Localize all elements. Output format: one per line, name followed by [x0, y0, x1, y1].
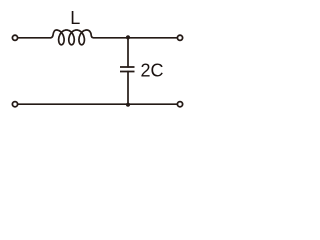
svg-text:L: L: [70, 8, 80, 28]
wire bottom: [18, 103, 176, 105]
terminal top-left: [12, 35, 17, 40]
wire capacitor lower lead: [127, 72, 129, 105]
terminal bottom-left: [12, 102, 17, 107]
inductor L coil: [51, 30, 94, 45]
node junction top: [126, 35, 130, 39]
capacitor 2C plates: [120, 67, 135, 72]
terminal top-right: [177, 35, 182, 40]
wire capacitor upper lead: [127, 38, 129, 67]
wire top-left segment: [18, 37, 50, 39]
terminal bottom-right: [177, 102, 182, 107]
svg-text:2C: 2C: [141, 61, 164, 81]
wire top-right segment: [94, 37, 177, 39]
node junction bottom: [126, 103, 130, 107]
